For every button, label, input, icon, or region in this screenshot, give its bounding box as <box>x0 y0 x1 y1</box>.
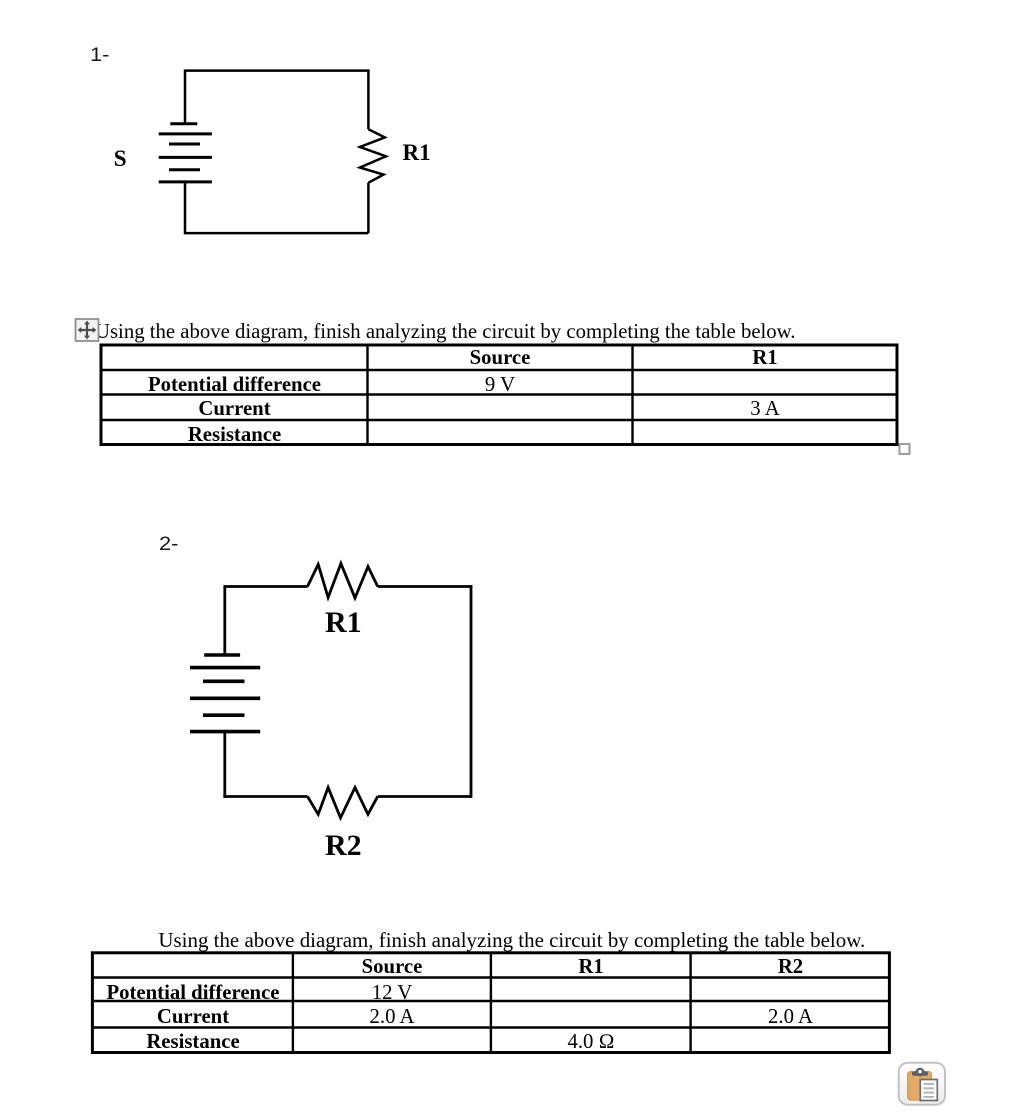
wire: circuit1 left lower (battery to bottom) <box>184 182 187 233</box>
table1 Potential difference <box>102 374 367 396</box>
table2 2.0 A (source col) <box>293 1006 491 1028</box>
battery S plate 6 long <box>159 180 212 183</box>
table2 row divider 2 <box>92 1000 890 1002</box>
table2 header R2 <box>691 956 890 978</box>
table1 9 V <box>368 374 632 396</box>
label 1- <box>90 46 109 66</box>
label 2- <box>159 535 178 555</box>
wire: circuit1 top <box>185 69 368 72</box>
table2 Current <box>93 1006 293 1028</box>
table1 Current <box>102 398 367 420</box>
table2 2.0 A (R2 col) <box>691 1006 890 1028</box>
table2 row divider 1 <box>92 976 890 978</box>
sentence 1 <box>95 321 796 343</box>
table2 column divider 2 <box>490 953 492 1053</box>
table1 header Source <box>368 347 632 369</box>
sentence 2 <box>158 929 865 951</box>
resistor R1 (circuit 1) zigzag <box>360 129 386 183</box>
wire: circuit2 right vertical <box>470 585 473 798</box>
wire: circuit1 right upper <box>367 69 370 129</box>
wire: circuit2 top right <box>378 585 473 588</box>
battery2 plate 4 long <box>190 696 260 700</box>
battery S plate 1 short <box>170 122 197 125</box>
clipboard paste-options icon <box>899 1063 945 1105</box>
resistor R1 (circuit 2) zigzag <box>308 564 378 598</box>
table1 resize handle <box>900 444 910 454</box>
wire: circuit2 bottom left <box>223 795 307 798</box>
wire: circuit2 left upper (to battery) <box>223 585 226 655</box>
wire: circuit2 left lower (battery to bottom) <box>223 732 226 798</box>
table1 move handle icon <box>72 315 102 345</box>
table1 3 A <box>633 398 897 420</box>
battery (circuit 2) <box>190 655 260 732</box>
table2 row divider 3 <box>92 1026 890 1028</box>
table1 Resistance <box>102 424 367 446</box>
battery S plate 5 medium <box>169 168 200 171</box>
table1 row divider 1 <box>101 369 897 371</box>
battery2 plate 6 long <box>190 730 260 734</box>
table2 column divider 1 <box>292 953 294 1053</box>
label R2 (circuit 2) <box>325 830 362 861</box>
battery2 plate 5 medium <box>203 713 245 717</box>
label S (battery circuit 1) <box>114 148 127 170</box>
label R1 (circuit 2) <box>325 607 362 638</box>
table1 column divider 2 <box>631 345 633 445</box>
wire: circuit1 left upper (to battery) <box>184 69 187 123</box>
table2 4.0 ohm <box>491 1031 691 1053</box>
table2 12 V <box>293 982 491 1004</box>
resistor R2 (circuit 2) zigzag <box>308 788 378 818</box>
wire: circuit2 top left <box>225 585 308 588</box>
wire: circuit1 right lower <box>367 183 370 233</box>
table1 header R1 <box>633 347 897 369</box>
battery S (circuit 1) <box>159 124 212 182</box>
table2 header Source <box>293 956 491 978</box>
table1 row divider 3 <box>101 419 897 421</box>
wire: circuit2 bottom right <box>378 795 471 798</box>
battery S plate 2 long <box>159 132 212 135</box>
label R1 (circuit 1) <box>403 142 431 164</box>
battery2 plate 1 short <box>204 653 240 657</box>
table1 outer border <box>101 345 897 445</box>
table2 header R1 <box>491 956 691 978</box>
battery S plate 3 medium <box>169 143 200 146</box>
wire: circuit1 bottom <box>184 232 369 235</box>
table2 Potential difference <box>93 982 293 1004</box>
table2 outer border <box>92 953 889 1053</box>
battery2 plate 2 long <box>190 666 260 670</box>
table1 row divider 2 <box>101 393 897 395</box>
table2 Resistance <box>93 1031 293 1053</box>
table1 column divider 1 <box>366 345 368 445</box>
battery2 plate 3 medium <box>203 679 245 683</box>
battery S plate 4 long <box>159 156 212 159</box>
table2 column divider 3 <box>689 953 691 1053</box>
